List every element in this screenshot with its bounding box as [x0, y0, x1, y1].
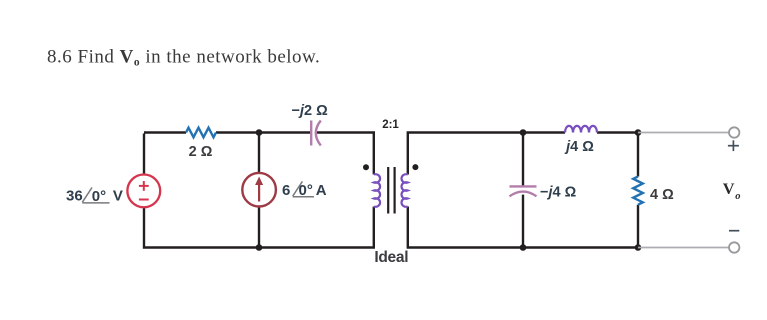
- wire output top gray: [638, 132, 729, 134]
- minus sign output: [729, 230, 739, 232]
- capacitor -j4 plate top: [510, 185, 537, 187]
- wire top rail left: [144, 133, 638, 248]
- wire secondary loop: [408, 133, 565, 175]
- svg-text:8.6 Find Vo in the network bel: 8.6 Find Vo in the network below.: [47, 47, 320, 69]
- node top j4 left: [520, 129, 527, 136]
- svg-text:4 Ω: 4 Ω: [650, 187, 674, 203]
- transformer core: [388, 167, 394, 214]
- terminal bottom: [729, 242, 739, 252]
- node bottom cap branch: [520, 244, 527, 251]
- capacitor -j2 plate left: [310, 121, 312, 146]
- svg-text:−j2 Ω: −j2 Ω: [292, 103, 329, 119]
- svg-text:6: 6: [282, 182, 290, 199]
- voltage source minus: [139, 199, 149, 201]
- transformer primary winding: [374, 174, 380, 207]
- svg-text:Ideal: Ideal: [374, 249, 408, 266]
- wire capacitor branch: [522, 133, 524, 187]
- transformer secondary winding: [402, 174, 408, 207]
- svg-text:2 Ω: 2 Ω: [189, 144, 213, 160]
- angle underline for 36: [82, 202, 109, 204]
- svg-text:36: 36: [66, 188, 83, 205]
- current source Is circle: [242, 173, 276, 207]
- wire middle vertical: [258, 133, 260, 173]
- capacitor -j2 plate curved: [316, 121, 321, 146]
- label 6 angle 0 A: [282, 182, 327, 199]
- current source arrow: [258, 184, 260, 202]
- svg-text:−j4 Ω: −j4 Ω: [540, 184, 577, 200]
- node bottom middle: [256, 244, 263, 251]
- angle slash for 6: [293, 181, 303, 196]
- voltage source Vs circle: [127, 175, 160, 208]
- node bottom resistor branch: [635, 244, 642, 251]
- label 36 angle 0 V: [66, 188, 123, 206]
- svg-text:2:1: 2:1: [382, 119, 399, 131]
- svg-text:V: V: [113, 188, 123, 205]
- inductor j4: [565, 126, 597, 133]
- resistor R 4ohm: [633, 177, 643, 205]
- angle underline for 6: [293, 196, 314, 198]
- svg-text:A: A: [316, 182, 327, 199]
- node top j4 right: [635, 129, 642, 136]
- terminal top: [729, 127, 739, 137]
- svg-text:o: o: [735, 191, 740, 202]
- angle slash for 36: [82, 188, 92, 203]
- wire output bottom gray: [638, 247, 729, 249]
- wire left vertical: [143, 134, 145, 175]
- node top middle: [256, 129, 263, 136]
- svg-text:j4 Ω: j4 Ω: [564, 139, 594, 155]
- svg-text:V: V: [723, 179, 735, 198]
- capacitor -j4 plate curved: [510, 192, 537, 197]
- voltage source plus: [139, 181, 149, 200]
- plus sign output: [728, 140, 739, 151]
- resistor R 2ohm: [186, 128, 216, 138]
- transformer dot secondary: [412, 164, 418, 170]
- transformer dot primary: [363, 164, 369, 170]
